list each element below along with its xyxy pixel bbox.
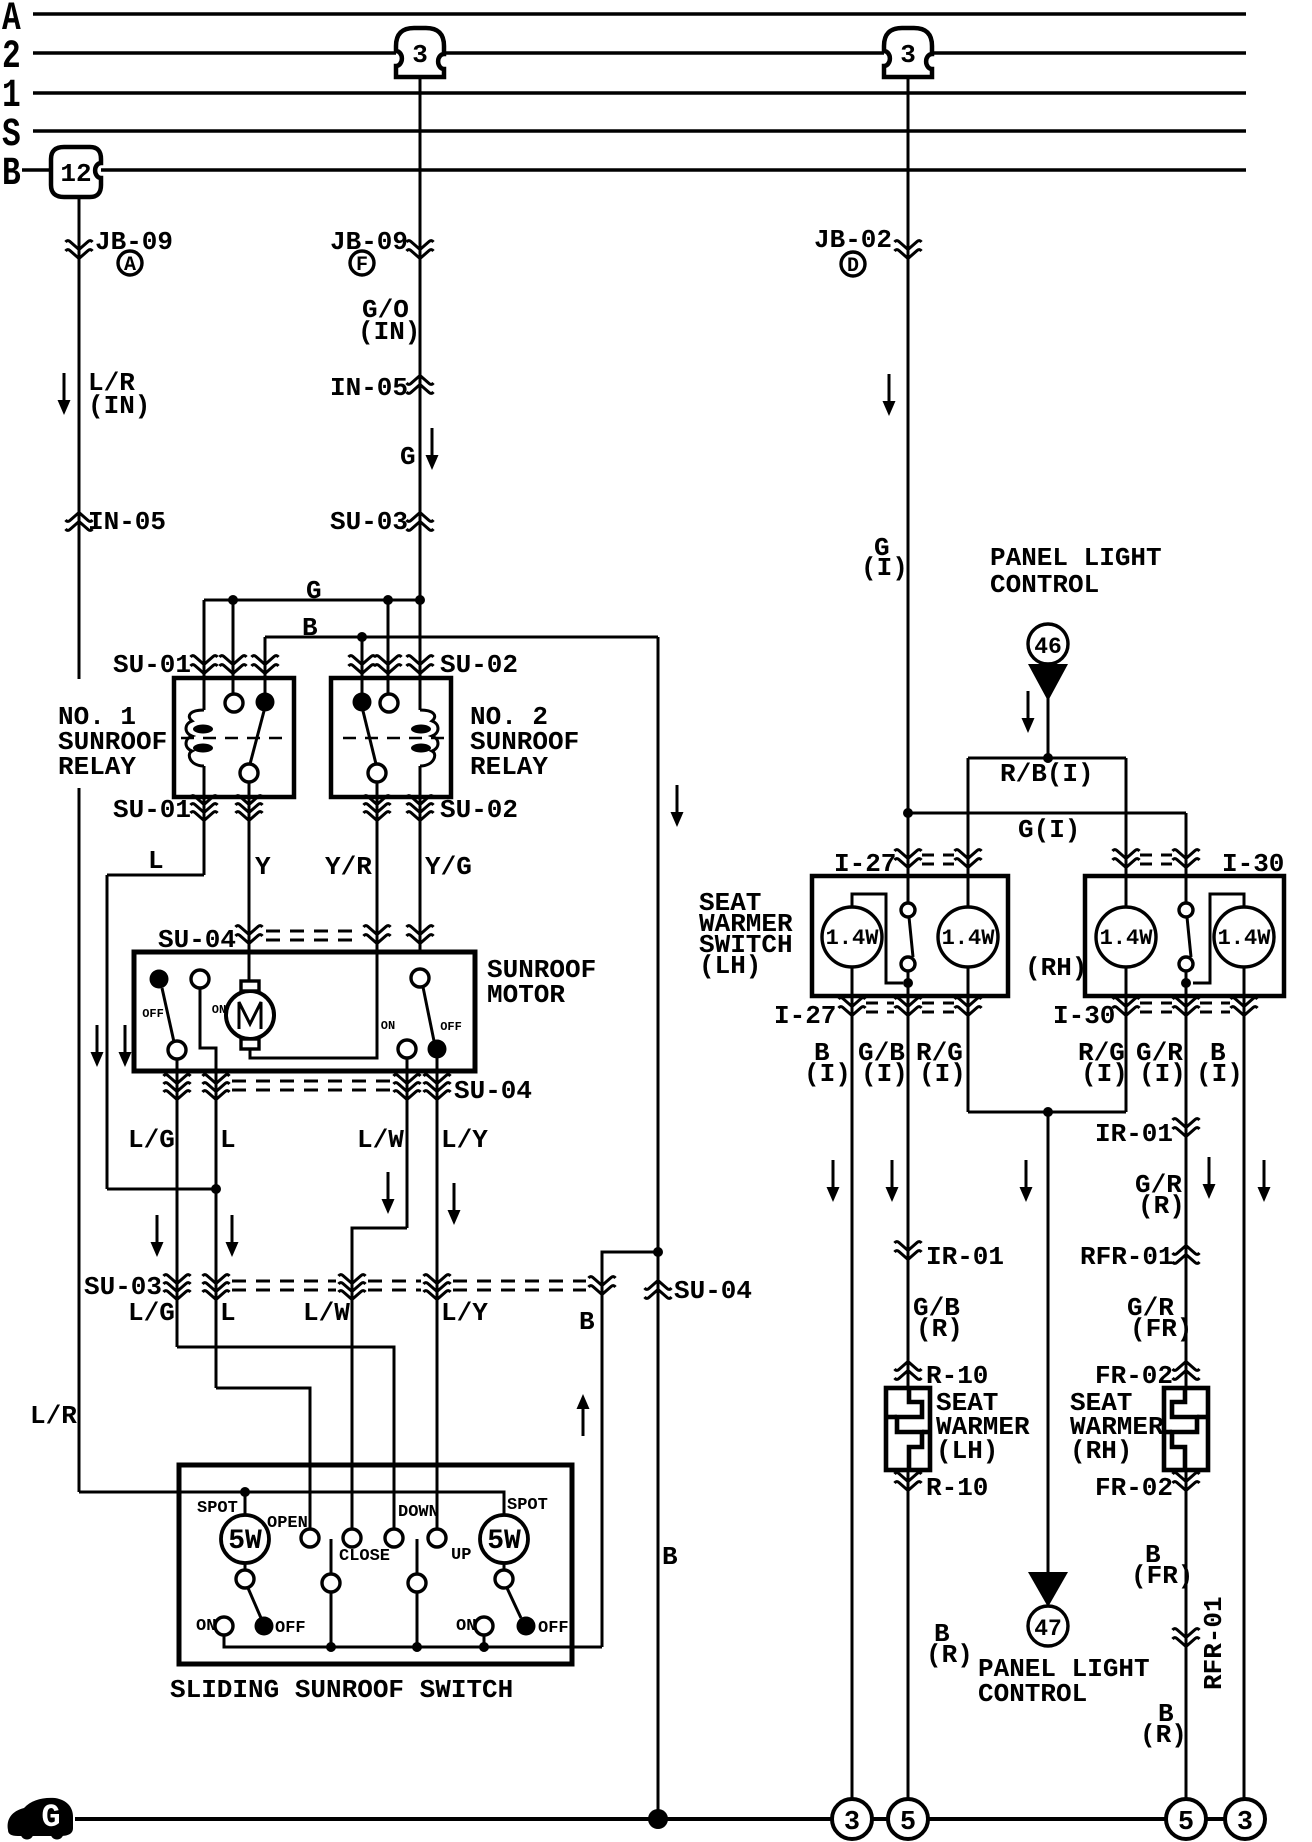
svg-text:RELAY: RELAY bbox=[58, 752, 136, 782]
svg-text:CONTROL: CONTROL bbox=[990, 570, 1099, 600]
svg-text:D: D bbox=[847, 255, 859, 278]
svg-text:G: G bbox=[400, 442, 416, 472]
svg-text:DOWN: DOWN bbox=[398, 1503, 439, 1522]
svg-text:SU-01: SU-01 bbox=[113, 650, 191, 680]
svg-text:(RH): (RH) bbox=[1025, 953, 1087, 983]
svg-text:OFF: OFF bbox=[275, 1619, 306, 1638]
svg-text:(I): (I) bbox=[804, 1059, 851, 1089]
svg-text:UP: UP bbox=[451, 1546, 471, 1565]
svg-text:5W: 5W bbox=[487, 1526, 521, 1557]
svg-text:ON: ON bbox=[381, 1019, 395, 1033]
svg-text:(I): (I) bbox=[1081, 1059, 1128, 1089]
svg-text:B: B bbox=[2, 151, 21, 197]
svg-text:12: 12 bbox=[60, 159, 91, 189]
svg-text:L: L bbox=[220, 1298, 236, 1328]
svg-text:3: 3 bbox=[412, 40, 428, 70]
svg-text:Y/G: Y/G bbox=[425, 852, 472, 882]
svg-text:FR-02: FR-02 bbox=[1095, 1361, 1173, 1391]
svg-text:47: 47 bbox=[1034, 1616, 1062, 1642]
svg-text:RELAY: RELAY bbox=[470, 752, 548, 782]
svg-text:OFF: OFF bbox=[440, 1020, 462, 1034]
svg-text:SU-04: SU-04 bbox=[454, 1076, 532, 1106]
svg-text:SU-04: SU-04 bbox=[674, 1276, 752, 1306]
svg-text:L/Y: L/Y bbox=[441, 1125, 488, 1155]
svg-text:IR-01: IR-01 bbox=[1095, 1119, 1173, 1149]
svg-text:G(I): G(I) bbox=[1018, 815, 1080, 845]
svg-text:I-30: I-30 bbox=[1053, 1001, 1115, 1031]
svg-text:G: G bbox=[41, 1799, 60, 1836]
svg-text:1.4W: 1.4W bbox=[942, 926, 996, 951]
svg-text:(R): (R) bbox=[1138, 1191, 1185, 1221]
svg-text:(FR): (FR) bbox=[1130, 1314, 1192, 1344]
svg-text:1.4W: 1.4W bbox=[1218, 926, 1272, 951]
svg-text:5: 5 bbox=[900, 1808, 916, 1838]
svg-text:CLOSE: CLOSE bbox=[339, 1547, 390, 1566]
svg-text:(FR): (FR) bbox=[1131, 1561, 1193, 1591]
svg-text:(I): (I) bbox=[1196, 1059, 1243, 1089]
svg-text:OFF: OFF bbox=[142, 1007, 164, 1021]
svg-text:(RH): (RH) bbox=[1070, 1436, 1132, 1466]
svg-text:(R): (R) bbox=[926, 1640, 973, 1670]
svg-text:L/R: L/R bbox=[30, 1401, 77, 1431]
svg-text:L/W: L/W bbox=[303, 1298, 350, 1328]
svg-text:SLIDING SUNROOF SWITCH: SLIDING SUNROOF SWITCH bbox=[170, 1675, 513, 1705]
svg-text:(R): (R) bbox=[916, 1314, 963, 1344]
svg-text:L/Y: L/Y bbox=[441, 1298, 488, 1328]
svg-text:CONTROL: CONTROL bbox=[978, 1679, 1087, 1709]
svg-text:I-27: I-27 bbox=[774, 1001, 836, 1031]
svg-text:Y: Y bbox=[255, 852, 271, 882]
svg-text:B: B bbox=[579, 1307, 595, 1337]
svg-text:R/B(I): R/B(I) bbox=[1000, 759, 1094, 789]
svg-text:B: B bbox=[662, 1542, 678, 1572]
svg-text:SPOT: SPOT bbox=[197, 1499, 238, 1518]
svg-text:(I): (I) bbox=[861, 1059, 908, 1089]
svg-text:5: 5 bbox=[1178, 1808, 1194, 1838]
svg-text:L/G: L/G bbox=[128, 1298, 175, 1328]
svg-text:SU-02: SU-02 bbox=[440, 795, 518, 825]
svg-text:5W: 5W bbox=[228, 1526, 262, 1557]
svg-text:ON: ON bbox=[196, 1617, 216, 1636]
svg-text:MOTOR: MOTOR bbox=[487, 980, 565, 1010]
svg-text:(IN): (IN) bbox=[88, 391, 150, 421]
svg-text:L: L bbox=[220, 1125, 236, 1155]
svg-text:ON: ON bbox=[456, 1617, 476, 1636]
svg-text:IN-05: IN-05 bbox=[88, 507, 166, 537]
svg-text:IR-01: IR-01 bbox=[926, 1242, 1004, 1272]
svg-text:L/G: L/G bbox=[128, 1125, 175, 1155]
svg-text:G: G bbox=[306, 576, 322, 606]
svg-text:FR-02: FR-02 bbox=[1095, 1473, 1173, 1503]
svg-text:PANEL LIGHT: PANEL LIGHT bbox=[990, 543, 1162, 573]
svg-text:(R): (R) bbox=[1140, 1720, 1187, 1750]
svg-text:SU-03: SU-03 bbox=[330, 507, 408, 537]
svg-text:(IN): (IN) bbox=[358, 317, 420, 347]
svg-text:(I): (I) bbox=[919, 1059, 966, 1089]
svg-text:L/W: L/W bbox=[357, 1125, 404, 1155]
svg-text:IN-05: IN-05 bbox=[330, 373, 408, 403]
svg-text:1.4W: 1.4W bbox=[826, 926, 880, 951]
svg-text:RFR-01: RFR-01 bbox=[1080, 1242, 1174, 1272]
svg-text:OFF: OFF bbox=[538, 1619, 569, 1638]
svg-text:B: B bbox=[302, 613, 318, 643]
svg-text:SPOT: SPOT bbox=[507, 1496, 548, 1515]
svg-text:SU-01: SU-01 bbox=[113, 795, 191, 825]
svg-text:R-10: R-10 bbox=[926, 1473, 988, 1503]
svg-text:RFR-01: RFR-01 bbox=[1199, 1596, 1229, 1690]
svg-text:OPEN: OPEN bbox=[267, 1514, 308, 1533]
svg-text:L: L bbox=[148, 846, 164, 876]
svg-text:SU-02: SU-02 bbox=[440, 650, 518, 680]
svg-text:1.4W: 1.4W bbox=[1100, 926, 1154, 951]
svg-text:Y/R: Y/R bbox=[325, 852, 372, 882]
svg-text:(LH): (LH) bbox=[699, 951, 761, 981]
svg-text:46: 46 bbox=[1034, 634, 1062, 660]
svg-text:3: 3 bbox=[900, 40, 916, 70]
svg-text:(I): (I) bbox=[1139, 1059, 1186, 1089]
svg-text:(I): (I) bbox=[861, 553, 908, 583]
svg-text:(LH): (LH) bbox=[936, 1436, 998, 1466]
svg-text:R-10: R-10 bbox=[926, 1361, 988, 1391]
svg-text:F: F bbox=[356, 254, 368, 277]
svg-text:3: 3 bbox=[844, 1808, 860, 1838]
svg-text:3: 3 bbox=[1237, 1808, 1253, 1838]
svg-text:A: A bbox=[124, 254, 136, 277]
